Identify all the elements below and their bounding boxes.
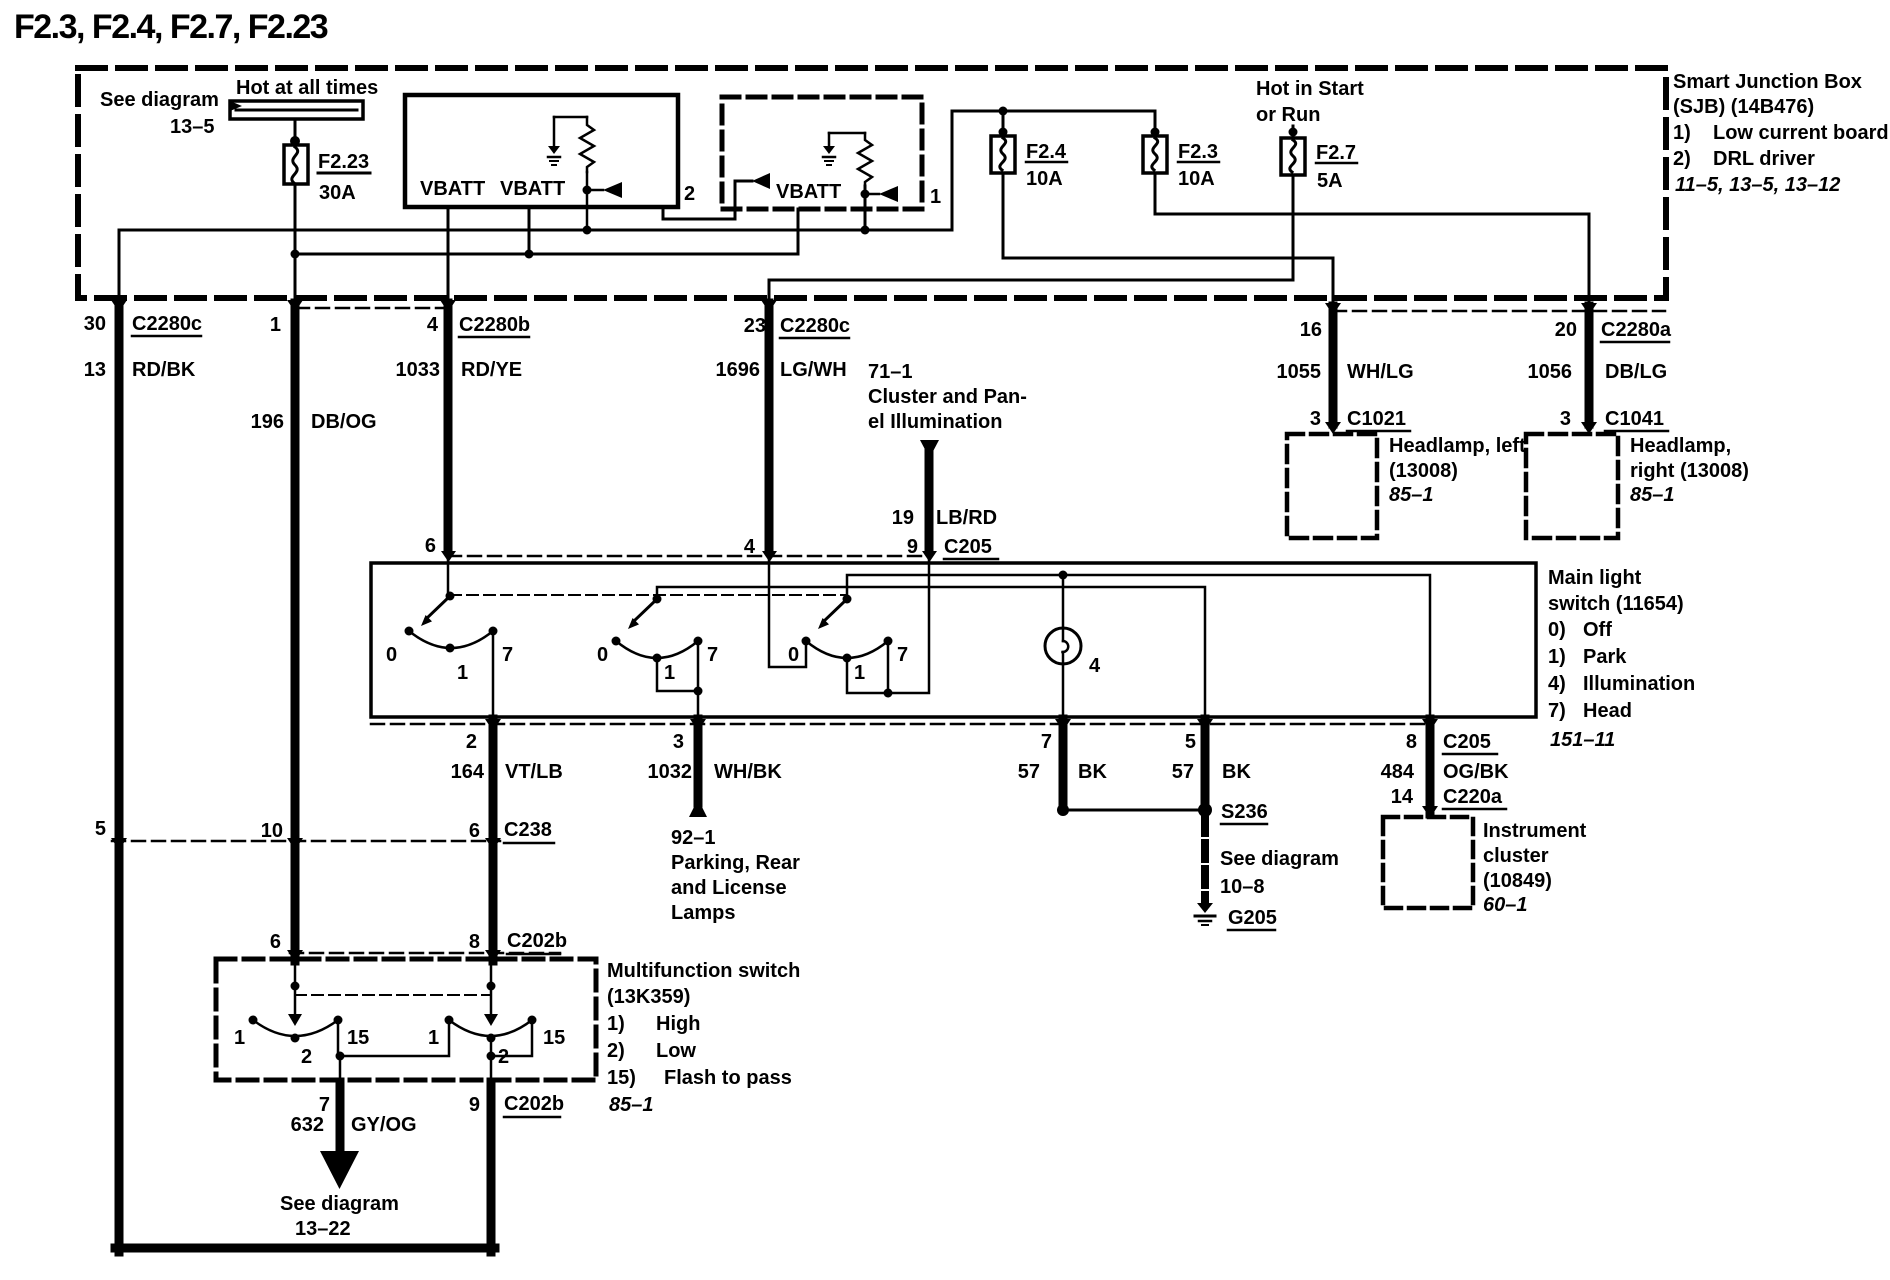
wire 57 BK (pin 7) <box>1059 719 1068 808</box>
underline C205 (pin 9) <box>944 558 998 561</box>
svg-text:C2280c: C2280c <box>132 313 202 335</box>
F off-page arrow <box>320 1151 359 1189</box>
svg-text:3: 3 <box>1310 408 1321 430</box>
dimmer wafer 1 arc <box>253 1020 338 1036</box>
fuse F2.23 <box>284 145 308 184</box>
connector C2280b pin 4 arrow <box>440 300 456 312</box>
svg-text:2: 2 <box>301 1046 312 1068</box>
svg-text:7: 7 <box>319 1094 330 1116</box>
U1 VBATT wire (right pin) down to VBATT rail <box>528 207 531 254</box>
svg-text:F2.4: F2.4 <box>1026 141 1067 163</box>
svg-text:VBATT: VBATT <box>500 178 565 200</box>
svg-text:7): 7) <box>1548 700 1566 722</box>
U1 contact output wire down to rail <box>586 172 589 230</box>
svg-text:G205: G205 <box>1228 907 1277 929</box>
svg-text:92–1: 92–1 <box>671 827 716 849</box>
wire 13 RD/BK (pin 30) trunk <box>115 303 124 1252</box>
svg-text:85–1: 85–1 <box>1630 484 1675 506</box>
svg-text:7: 7 <box>1041 731 1052 753</box>
connector line C205 (bottom) <box>371 723 1430 726</box>
svg-text:Main light: Main light <box>1548 567 1642 589</box>
multifunction switch dashed box <box>216 959 596 1080</box>
svg-text:0: 0 <box>386 644 397 666</box>
wire 19 LB/RD start arrow <box>920 440 939 458</box>
wafer 1 contact 1 <box>446 644 455 653</box>
svg-text:Cluster and Pan-: Cluster and Pan- <box>868 386 1027 408</box>
svg-text:10A: 10A <box>1178 168 1215 190</box>
svg-text:71–1: 71–1 <box>868 361 913 383</box>
svg-text:57: 57 <box>1018 761 1040 783</box>
wire 1055 WH/LG (pin 16) <box>1329 306 1338 424</box>
wire rail down to connector pin 30 <box>118 230 121 300</box>
label fuse F2.3 / 10A <box>1178 141 1218 190</box>
label See diagram 10-8 <box>1220 848 1339 898</box>
splice dot pin 7 <box>1057 804 1069 816</box>
wafer 1 contact 7 <box>489 627 498 636</box>
svg-text:3: 3 <box>673 731 684 753</box>
switch wafer 3 pivot stem and rail to pin 8 <box>847 575 1430 717</box>
svg-text:1033: 1033 <box>396 359 441 381</box>
svg-text:C205: C205 <box>944 536 992 558</box>
svg-text:See diagram: See diagram <box>100 89 219 111</box>
svg-text:(SJB) (14B476): (SJB) (14B476) <box>1673 96 1814 118</box>
wire pin 4 to wafer 3 contact 0 <box>769 560 806 667</box>
svg-text:C202b: C202b <box>507 930 567 952</box>
svg-text:C2280c: C2280c <box>780 315 850 337</box>
svg-text:0: 0 <box>788 644 799 666</box>
dimmer wafer 2 arc <box>449 1020 532 1036</box>
svg-text:RD/YE: RD/YE <box>461 359 522 381</box>
svg-text:Off: Off <box>1583 619 1612 641</box>
svg-text:F2.3: F2.3 <box>1178 141 1218 163</box>
connector line C238 <box>112 840 500 843</box>
svg-text:1: 1 <box>930 186 941 208</box>
wire S236 to ground (other circuits dashed) <box>1201 817 1209 903</box>
wire wafer 2 contact 2 to pin 9 <box>490 1038 493 1080</box>
svg-text:4: 4 <box>1089 655 1101 677</box>
fuse F2.3 <box>1143 136 1167 173</box>
wire 1033 RD/YE (pin 4) <box>444 303 453 549</box>
labels dimmer wafer 2 <box>428 1027 565 1068</box>
connector C238 pin 6 arrow <box>485 838 501 850</box>
svg-text:BK: BK <box>1078 761 1107 783</box>
wafer 2 contact 0 <box>612 637 621 646</box>
wire pin 9 return run <box>487 1082 496 1252</box>
connector C2280a pin 20 arrow <box>1581 303 1597 315</box>
svg-text:el Illumination: el Illumination <box>868 411 1002 433</box>
svg-text:632: 632 <box>291 1114 324 1136</box>
svg-text:Illumination: Illumination <box>1583 673 1695 695</box>
svg-text:Multifunction switch: Multifunction switch <box>607 960 800 982</box>
connector arrow pin 8 <box>1422 719 1438 731</box>
svg-text:C2280a: C2280a <box>1601 319 1672 341</box>
svg-text:Flash to pass: Flash to pass <box>664 1067 792 1089</box>
svg-text:11–5, 13–5, 13–12: 11–5, 13–5, 13–12 <box>1675 174 1840 196</box>
svg-text:1696: 1696 <box>716 359 761 381</box>
wire 196 DB/OG (pin 1) <box>291 303 300 961</box>
svg-text:151–11: 151–11 <box>1550 729 1615 751</box>
labels connector C202b <box>270 930 567 953</box>
connector arrow pin 5 <box>1197 719 1213 731</box>
svg-text:C202b: C202b <box>504 1093 564 1115</box>
wire fuse F2.4 to connector pin 16 <box>1003 173 1333 300</box>
wire 1032 WH/BK (pin 3) <box>694 719 703 803</box>
svg-text:Head: Head <box>1583 700 1632 722</box>
relay low current board box U1 <box>405 95 678 207</box>
dimmer wafer 2 contact 1 <box>445 1016 454 1025</box>
label Instrument cluster <box>1483 820 1587 916</box>
svg-text:1): 1) <box>1548 646 1566 668</box>
bus bar (hot at all times feed) <box>230 101 363 119</box>
wire 1696 LG/WH (pin 23) <box>765 303 774 549</box>
label See diagram 13-22 <box>280 1193 399 1240</box>
dimmer wafer 1 contact 1 <box>249 1016 258 1025</box>
labels connector C238 <box>95 818 552 842</box>
svg-text:5A: 5A <box>1317 170 1343 192</box>
label Hot in Start or Run <box>1256 78 1364 126</box>
U2 contact arrow <box>865 193 879 196</box>
underline C205 (pin 8) <box>1443 753 1497 756</box>
labels pin 9 C202b (lower) <box>469 1093 564 1116</box>
connector line C202b <box>290 952 560 955</box>
svg-text:LG/WH: LG/WH <box>780 359 847 381</box>
svg-text:Low current board: Low current board <box>1713 122 1889 144</box>
wire fuse F2.23 down to connector pin 1 <box>294 184 297 300</box>
fuse F2.3 stub <box>1154 111 1157 136</box>
wire wafer1 contact 7 to pin 2 <box>492 631 495 717</box>
svg-text:WH/LG: WH/LG <box>1347 361 1414 383</box>
svg-text:BK: BK <box>1222 761 1251 783</box>
svg-text:20: 20 <box>1555 319 1577 341</box>
switch wafer 2 lever <box>633 599 657 622</box>
svg-text:LB/RD: LB/RD <box>936 507 997 529</box>
svg-text:High: High <box>656 1013 700 1035</box>
junction dot wafer 2 output <box>487 1052 496 1061</box>
wire 57 BK (pin 5) <box>1201 719 1210 808</box>
headlamp right dashed box <box>1526 434 1618 538</box>
svg-text:6: 6 <box>270 931 281 953</box>
underline C2280b <box>459 336 529 339</box>
svg-text:1055: 1055 <box>1277 361 1322 383</box>
svg-text:10–8: 10–8 <box>1220 876 1265 898</box>
svg-text:1): 1) <box>607 1013 625 1035</box>
svg-text:Headlamp, left: Headlamp, left <box>1389 435 1526 457</box>
wire fuse F2.7 to connector pin 23 <box>769 175 1293 300</box>
labels wafer 1 positions <box>386 644 513 684</box>
svg-text:OG/BK: OG/BK <box>1443 761 1509 783</box>
labels wire 19 LB/RD <box>892 507 997 558</box>
U1 internal top link <box>554 116 587 119</box>
svg-text:RD/BK: RD/BK <box>132 359 196 381</box>
connector C220a arrow <box>1422 806 1438 818</box>
svg-text:484: 484 <box>1381 761 1415 783</box>
svg-text:3: 3 <box>1560 408 1571 430</box>
svg-text:1056: 1056 <box>1528 361 1573 383</box>
switch wafer 2 pivot <box>653 595 662 604</box>
svg-text:16: 16 <box>1300 319 1322 341</box>
labels switch feed pins 6 / 4 / 9 <box>425 535 756 558</box>
svg-text:164: 164 <box>451 761 485 783</box>
switch linkage dashed line <box>450 594 847 596</box>
dimmer linkage dashed <box>295 994 490 996</box>
svg-text:8: 8 <box>469 931 480 953</box>
svg-text:VT/LB: VT/LB <box>505 761 563 783</box>
svg-text:DB/LG: DB/LG <box>1605 361 1667 383</box>
svg-text:14: 14 <box>1391 786 1414 808</box>
svg-text:C205: C205 <box>1443 731 1491 753</box>
svg-text:13: 13 <box>84 359 106 381</box>
svg-text:1: 1 <box>854 662 865 684</box>
svg-text:1): 1) <box>1673 122 1691 144</box>
connector C205 pin 6 arrow <box>441 551 456 562</box>
illumination lamp (rheostat bulb) <box>1045 628 1081 664</box>
svg-text:85–1: 85–1 <box>609 1094 654 1116</box>
switch wafer 1 lever <box>426 596 450 619</box>
labels wafer 2 positions <box>597 644 718 684</box>
svg-text:6: 6 <box>425 535 436 557</box>
junction dot wafer 2 strap / pin 3 wire <box>694 687 703 696</box>
main light switch box <box>371 563 1536 717</box>
svg-text:DB/OG: DB/OG <box>311 411 377 433</box>
wire through illumination lamp to pin 7 <box>1062 575 1065 717</box>
label Headlamp left <box>1389 435 1526 506</box>
switch wafer 3 pivot <box>843 595 852 604</box>
dimmer wafer 2 contact 15 <box>528 1016 537 1025</box>
svg-text:2: 2 <box>684 183 695 205</box>
wire 1032 end flare to 92-1 <box>689 799 707 817</box>
junction dot VBATT rail <box>525 250 534 259</box>
svg-text:10: 10 <box>261 820 283 842</box>
U2 output wire down to feed rail <box>864 186 867 231</box>
labels wire 632 GY/OG <box>291 1094 417 1136</box>
wire wafer 3 contact 7 down to strap <box>887 641 890 693</box>
svg-text:F2.23: F2.23 <box>318 151 369 173</box>
svg-text:4): 4) <box>1548 673 1566 695</box>
junction dot feed rail / U2 <box>861 226 870 235</box>
strap contact 15 to wafer 2 contact 1 <box>338 1020 449 1056</box>
connector C1041 arrow <box>1581 422 1597 434</box>
switch wafer 3 contact arc <box>806 641 888 658</box>
dimmer wiper arrow left <box>288 1014 302 1026</box>
svg-text:Hot at all times: Hot at all times <box>236 77 378 99</box>
svg-text:Instrument: Instrument <box>1483 820 1587 842</box>
svg-text:0): 0) <box>1548 619 1566 641</box>
switch wafer 1 contact arc <box>409 631 493 648</box>
Smart Junction Box dashed boundary <box>78 68 1666 298</box>
svg-text:85–1: 85–1 <box>1389 484 1434 506</box>
connector C205 pin 4 arrow <box>762 551 777 562</box>
label fuse F2.23 / 30A <box>318 151 369 204</box>
junction dot flash-to-pass output <box>336 1052 345 1061</box>
junction dot rail / F2.4 stub <box>999 107 1008 116</box>
junction dot above fuse F2.23 <box>290 136 300 146</box>
headlamp feed wire inside box <box>490 961 493 1016</box>
wire bus bar to fuse F2.23 <box>294 119 297 145</box>
dimmer wafer 1 contact 15 <box>334 1016 343 1025</box>
svg-text:or Run: or Run <box>1256 104 1320 126</box>
wire wafer2 contact 7 to pin 3 <box>697 641 700 717</box>
svg-text:1: 1 <box>270 314 281 336</box>
svg-text:right (13008): right (13008) <box>1630 460 1749 482</box>
labels wafer 3 positions <box>788 644 908 684</box>
connector line C2280b <box>296 307 448 310</box>
svg-text:1032: 1032 <box>648 761 693 783</box>
svg-text:13–5: 13–5 <box>170 116 215 138</box>
svg-text:15: 15 <box>347 1027 369 1049</box>
junction dot rail/U1 output <box>583 226 592 235</box>
label 71-1 Cluster and Panel Illumination <box>868 361 1027 433</box>
svg-text:5: 5 <box>1185 731 1196 753</box>
switch wafer 2 contact arc <box>616 641 698 658</box>
svg-text:WH/BK: WH/BK <box>714 761 782 783</box>
connector C238 pin 10 arrow <box>287 838 303 850</box>
svg-text:57: 57 <box>1172 761 1194 783</box>
U1 internal coil (resistor) <box>580 117 594 172</box>
svg-text:2): 2) <box>607 1040 625 1062</box>
connector C202b pin 6 arrow <box>287 950 303 962</box>
svg-text:9: 9 <box>469 1094 480 1116</box>
VBATT rail wire <box>295 209 798 254</box>
underline C2280a <box>1601 341 1669 344</box>
svg-text:F: F <box>334 1159 344 1176</box>
svg-text:0: 0 <box>597 644 608 666</box>
svg-text:30: 30 <box>84 313 106 335</box>
wafer 2 contact 1 strap <box>657 658 698 691</box>
svg-text:1: 1 <box>664 662 675 684</box>
svg-text:F2.3, F2.4, F2.7, F2.23: F2.3, F2.4, F2.7, F2.23 <box>14 8 328 46</box>
label fuse F2.7 / 5A <box>1316 142 1356 192</box>
connector C2280c pin 1 arrow <box>287 300 303 312</box>
svg-text:cluster: cluster <box>1483 845 1549 867</box>
wafer 2 contact 7 <box>694 637 703 646</box>
svg-text:C220a: C220a <box>1443 786 1503 808</box>
svg-text:9: 9 <box>907 536 918 558</box>
strap wafer 2 contact 15 to output <box>491 1020 532 1056</box>
connector C2280a pin 16 arrow <box>1325 303 1341 315</box>
svg-text:196: 196 <box>251 411 284 433</box>
wire 1056 DB/LG (pin 20) <box>1585 306 1594 424</box>
switch wafer 3 lever <box>823 599 847 622</box>
connector line C2280a <box>1333 310 1665 313</box>
connector C1021 arrow <box>1325 422 1341 434</box>
svg-text:6: 6 <box>469 820 480 842</box>
svg-text:and License: and License <box>671 877 787 899</box>
svg-text:Low: Low <box>656 1040 696 1062</box>
switch wafer 1 pivot <box>446 592 455 601</box>
svg-text:2): 2) <box>1673 148 1691 170</box>
svg-text:4: 4 <box>427 314 439 336</box>
underline C2280c (pin23) <box>780 337 849 340</box>
svg-text:23: 23 <box>744 315 766 337</box>
svg-text:See diagram: See diagram <box>1220 848 1339 870</box>
svg-text:1: 1 <box>234 1027 245 1049</box>
U1 contact arm node <box>583 186 592 195</box>
connector arrow pin 7 <box>1055 719 1071 731</box>
U2 contact node <box>861 190 870 199</box>
label Smart Junction Box annotation <box>1673 71 1889 196</box>
fuse F2.7 stub <box>1292 126 1295 138</box>
dimmer wafer 1 contact 2 <box>291 1034 300 1043</box>
svg-text:S236: S236 <box>1221 801 1268 823</box>
svg-text:7: 7 <box>897 644 908 666</box>
dimmer feed wire inside box <box>294 961 297 1016</box>
svg-text:30A: 30A <box>319 182 356 204</box>
wire 484 OG/BK (pin 8) <box>1426 719 1435 814</box>
connector arrow pin 3 <box>690 719 706 731</box>
wire 632 GY/OG (pin 7) <box>336 1082 345 1152</box>
wafer 3 contact 1 strap to pin 9 feed <box>847 558 929 693</box>
svg-text:switch (11654): switch (11654) <box>1548 593 1684 615</box>
svg-text:15): 15) <box>607 1067 636 1089</box>
underline C2280c (pin30) <box>132 335 201 338</box>
splice S236 link <box>1063 809 1205 812</box>
dimmer linkage pivot left <box>291 982 300 991</box>
svg-text:See diagram: See diagram <box>280 1193 399 1215</box>
wire 164 VT/LB (pin 2) <box>489 719 498 961</box>
svg-text:13–22: 13–22 <box>295 1218 351 1240</box>
label Main light switch annotation <box>1548 567 1695 751</box>
svg-text:F2.7: F2.7 <box>1316 142 1356 164</box>
labels dimmer wafer 1 <box>234 1027 369 1068</box>
U1 contact arrow <box>587 189 603 192</box>
connector C202b pin 8 arrow <box>485 950 501 962</box>
svg-text:5: 5 <box>95 818 106 840</box>
label: See diagram 13-5 <box>100 89 219 138</box>
illumination lamp feed junction <box>1059 571 1068 580</box>
label 92-1 Parking, Rear and License Lamps <box>671 827 800 924</box>
svg-text:C1041: C1041 <box>1605 408 1664 430</box>
wafer 2 contact 1 <box>653 654 662 663</box>
svg-text:Headlamp,: Headlamp, <box>1630 435 1731 457</box>
connector C2280c pin 30 arrow <box>111 300 127 312</box>
svg-text:Smart Junction Box: Smart Junction Box <box>1673 71 1862 93</box>
connector C238 pin 5 arrow <box>111 838 127 850</box>
svg-text:7: 7 <box>707 644 718 666</box>
svg-text:Lamps: Lamps <box>671 902 735 924</box>
headlamp left dashed box <box>1287 434 1377 538</box>
U2 internal top link <box>829 132 865 135</box>
connector line C205 (top) <box>448 555 929 558</box>
fuse F2.7 <box>1281 138 1305 175</box>
underline C1021 <box>1347 430 1410 433</box>
instrument cluster dashed box <box>1383 817 1473 908</box>
splice dot S236 <box>1198 803 1212 817</box>
svg-text:7: 7 <box>502 644 513 666</box>
labels switch output row <box>451 731 1509 808</box>
dimmer wiper arrow right <box>484 1014 498 1026</box>
svg-text:(10849): (10849) <box>1483 870 1552 892</box>
label fuse F2.4 / 10A <box>1026 141 1067 190</box>
fuse F2.4 <box>991 136 1015 173</box>
svg-text:C1021: C1021 <box>1347 408 1406 430</box>
dimmer linkage pivot right <box>487 982 496 991</box>
fuse F2.4 stub <box>1002 111 1005 136</box>
switch wafer 2 pivot stem and output rail to pin 5 <box>657 587 1205 717</box>
junction dot wafer 3 strap <box>884 689 893 698</box>
junction dot wire F2.23 / VBATT rail <box>291 250 300 259</box>
svg-text:Hot in Start: Hot in Start <box>1256 78 1364 100</box>
svg-text:Parking, Rear: Parking, Rear <box>671 852 800 874</box>
DRL driver dashed box U2 <box>722 97 922 209</box>
connector C205 pin 9 arrow <box>922 551 937 562</box>
svg-text:1: 1 <box>428 1027 439 1049</box>
svg-text:15: 15 <box>543 1027 565 1049</box>
connector C2280c pin 23 arrow <box>761 300 777 312</box>
svg-text:GY/OG: GY/OG <box>351 1114 417 1136</box>
U1 pin 2 wire to DRL driver contact <box>663 181 752 219</box>
connector arrow pin 2 <box>485 719 501 731</box>
U2 internal coil (resistor) <box>858 133 872 186</box>
